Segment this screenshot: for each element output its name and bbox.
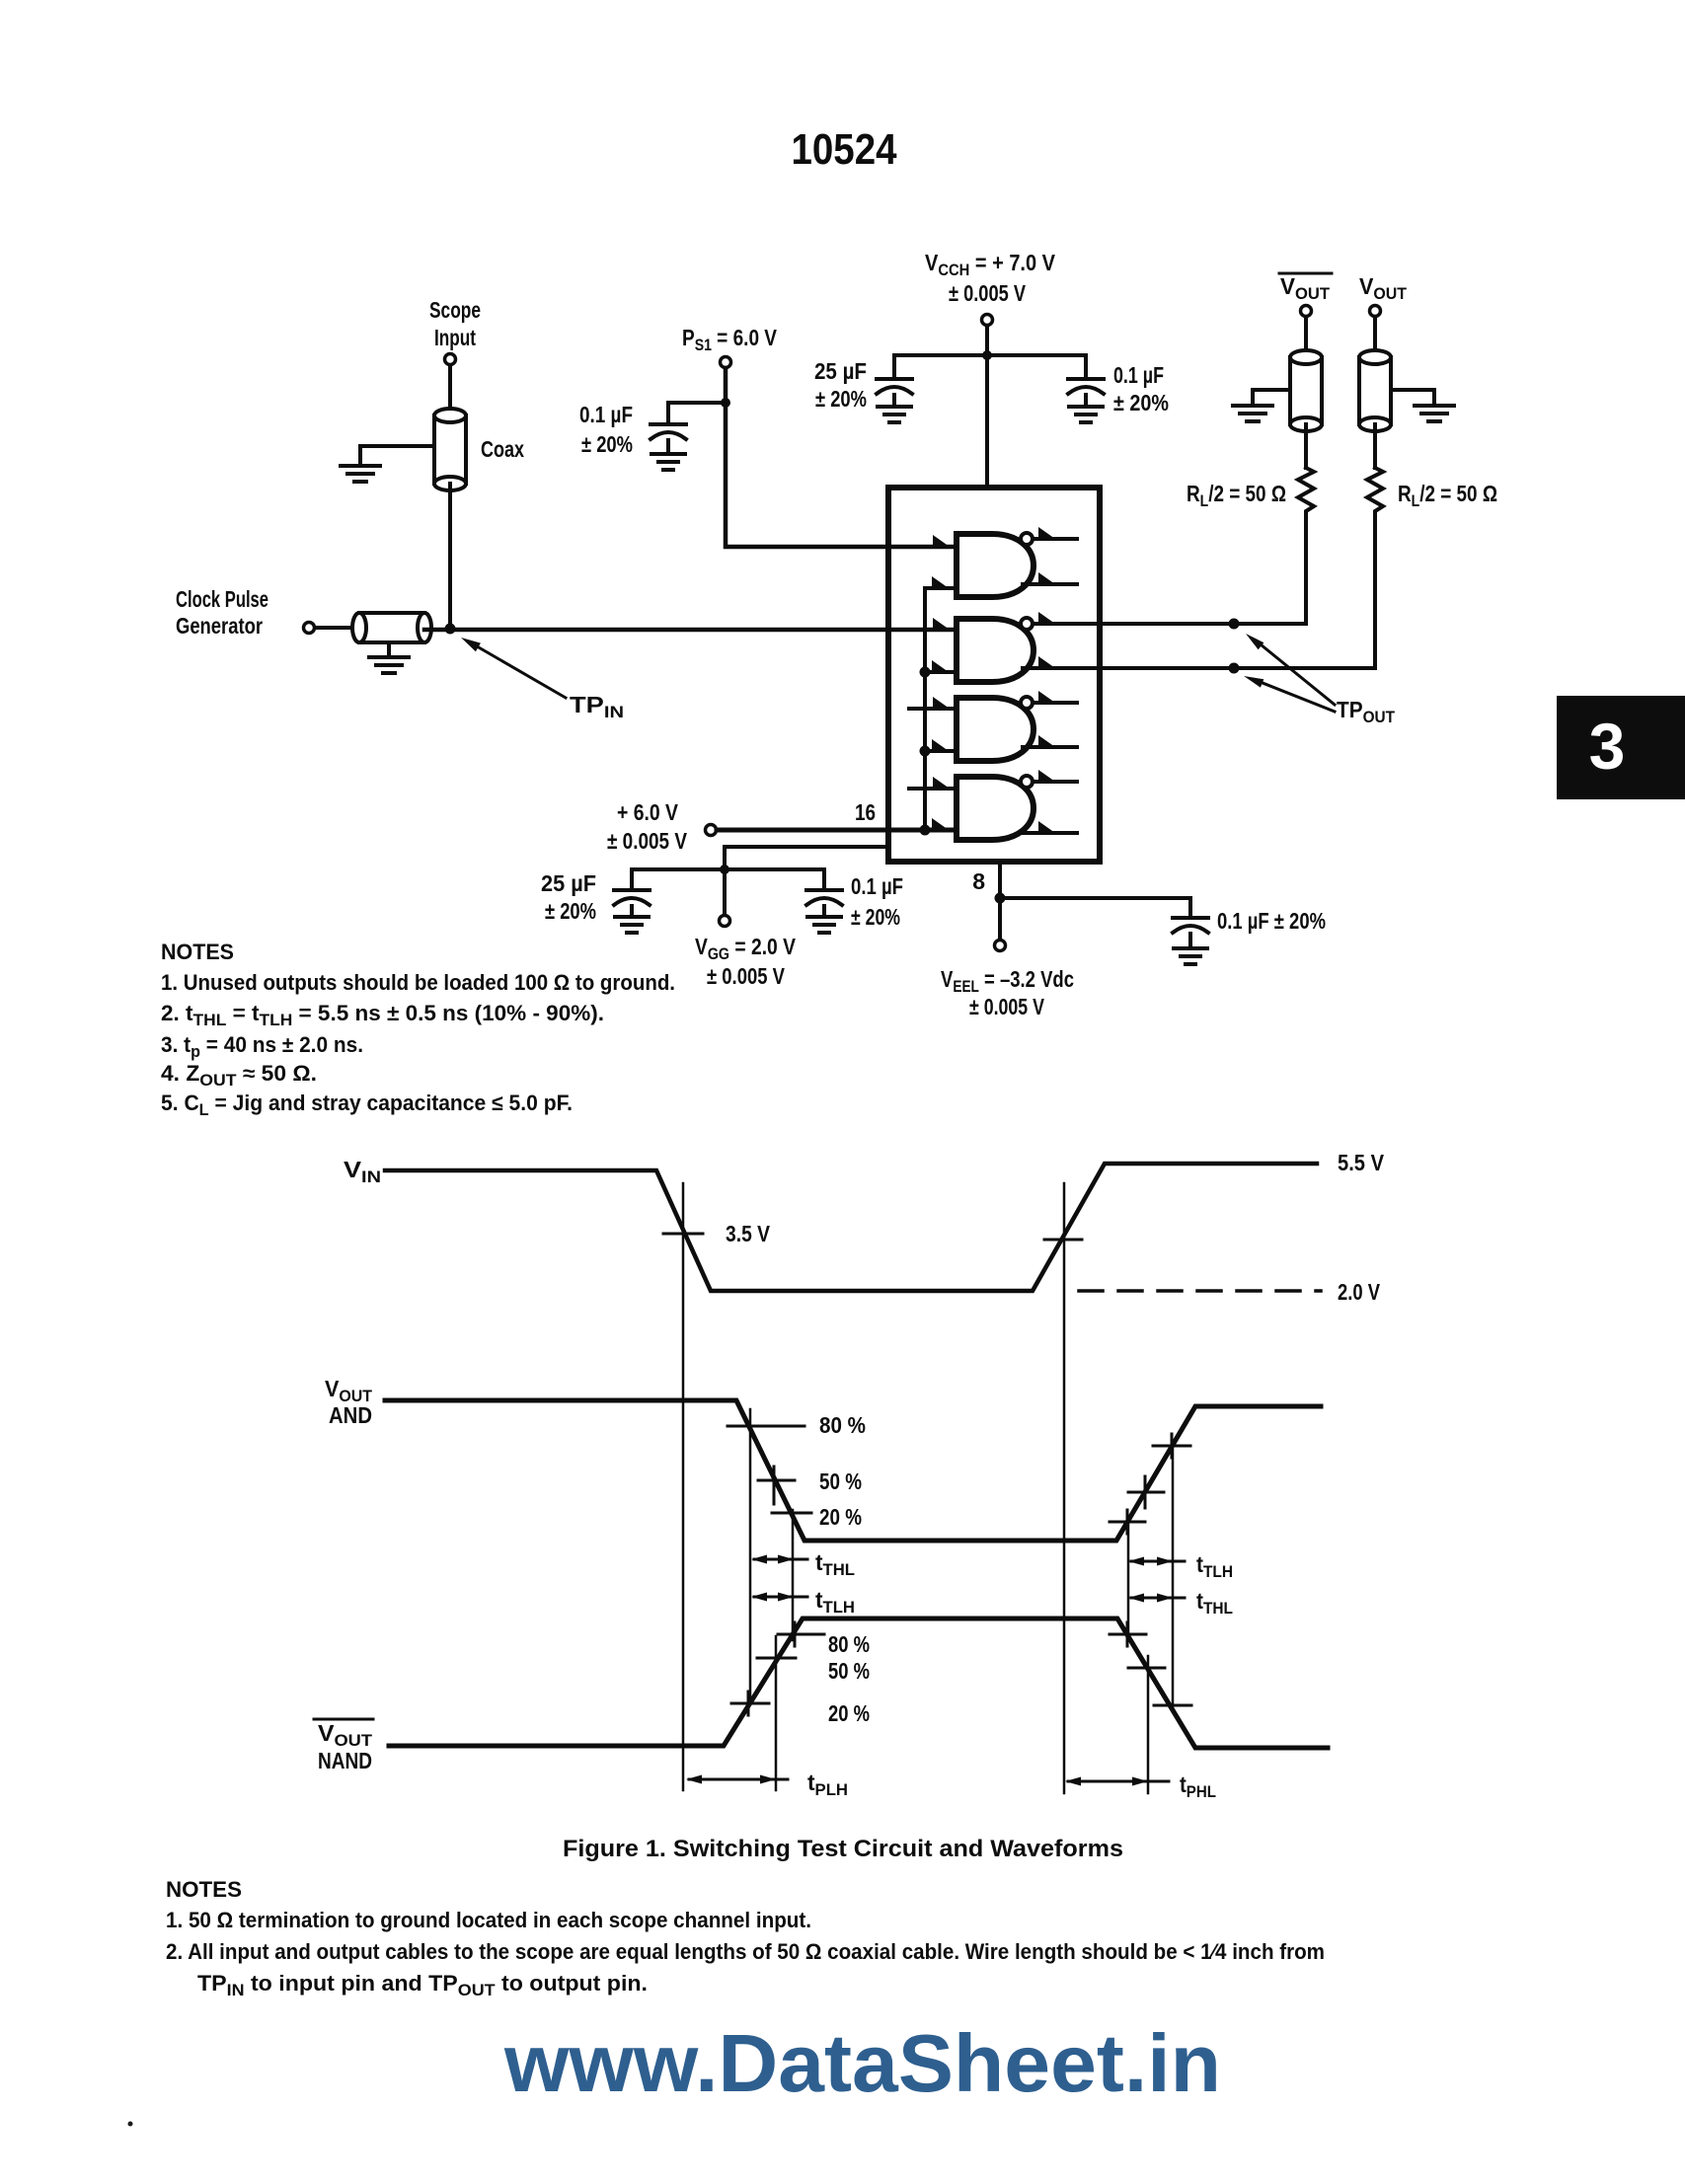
svg-text:0.1 µF: 0.1 µF xyxy=(1113,362,1164,388)
svg-text:3: 3 xyxy=(1589,710,1626,783)
svg-text:80 %: 80 % xyxy=(828,1631,870,1657)
wire tick NAND rise 20% xyxy=(731,1692,769,1715)
wire resistor right to coax xyxy=(1373,424,1377,468)
svg-text:TPIN: TPIN xyxy=(570,692,624,721)
node bus junction gate U1d input 2 xyxy=(920,825,931,836)
svg-text:4. ZOUT ≈ 50 Ω.: 4. ZOUT ≈ 50 Ω. xyxy=(161,1061,317,1090)
wire gate U1b AND output to VOUT network xyxy=(1023,517,1375,668)
node TPOUT junction (NAND) xyxy=(1229,619,1240,630)
svg-text:5.5 V: 5.5 V xyxy=(1338,1150,1385,1175)
node PS1 terminal xyxy=(682,325,778,368)
gate U1b (AND/NAND translator) xyxy=(932,612,1055,682)
svg-text:TPOUT: TPOUT xyxy=(1337,697,1396,726)
node VOUT-bar NAND waveform label xyxy=(318,1720,373,1773)
wire generator output to gate U1b input 1 xyxy=(424,628,957,633)
node VEEL terminal xyxy=(941,941,1074,1020)
svg-text:tTHL: tTHL xyxy=(1196,1588,1233,1618)
node VGG junction xyxy=(720,865,729,874)
node VCCH junction xyxy=(982,350,992,360)
coax body (clock generator) xyxy=(352,613,431,642)
svg-text:3. tp = 40 ns ± 2.0 ns.: 3. tp = 40 ns ± 2.0 ns. xyxy=(161,1032,363,1061)
svg-text:tTLH: tTLH xyxy=(1196,1551,1233,1581)
wire resistor left to coax xyxy=(1304,424,1308,468)
resistor RL/2 = 50 ohm (left) xyxy=(1187,468,1314,517)
wire gate U1c input 1 stub xyxy=(909,707,957,711)
svg-text:NOTES: NOTES xyxy=(161,940,234,964)
wire gate U1b input 2 stub xyxy=(925,670,957,674)
svg-text:± 20%: ± 20% xyxy=(815,386,867,412)
wire tick NAND fall 50% xyxy=(1128,1667,1165,1670)
label TPIN with arrow xyxy=(461,638,624,721)
coax Coax (scope input) xyxy=(434,409,524,490)
svg-text:± 0.005 V: ± 0.005 V xyxy=(607,828,688,854)
svg-text:± 20%: ± 20% xyxy=(851,904,900,930)
node VOUT AND waveform label xyxy=(325,1376,373,1428)
wire reference line at input rising edge xyxy=(1063,1183,1066,1793)
svg-text:2. tTHL = tTLH = 5.5 ns ± 0.5: 2. tTHL = tTLH = 5.5 ns ± 0.5 ns (10% - … xyxy=(161,1001,604,1029)
svg-text:Generator: Generator xyxy=(176,613,263,639)
svg-text:VIN: VIN xyxy=(344,1157,381,1186)
wire dashed 2.0 V level xyxy=(1079,1289,1321,1293)
wire tick NAND fall 80% xyxy=(1110,1622,1146,1646)
capacitor 0.1 uF 20% (PS1 bypass) xyxy=(579,402,686,470)
dimension tTLH (right) xyxy=(1128,1551,1233,1581)
wire reference line NAND 50% falling xyxy=(1147,1656,1150,1793)
capacitor 25 uF 20% (VGG bulk) xyxy=(541,869,650,933)
overline for VOUT-bar label xyxy=(314,1718,373,1721)
label 20% (NAND rise) xyxy=(828,1700,870,1726)
wire gate U1b NAND output to VOUT-bar network xyxy=(1033,517,1306,624)
svg-text:tPHL: tPHL xyxy=(1180,1771,1216,1801)
node VOUT terminal xyxy=(1359,273,1408,317)
title 10524 xyxy=(792,125,897,174)
wire tick AND rise 20% xyxy=(1110,1510,1145,1534)
label 80% (NAND rise) xyxy=(828,1631,870,1657)
wire reference line AND 80% falling xyxy=(749,1409,752,1703)
node VOUT-bar terminal xyxy=(1279,273,1332,317)
node VEE junction xyxy=(995,893,1006,904)
node TPOUT junction (AND) xyxy=(1229,663,1240,674)
svg-text:Coax: Coax xyxy=(481,436,524,462)
label 50% (NAND rise) xyxy=(828,1658,870,1684)
svg-text:www.DataSheet.in: www.DataSheet.in xyxy=(503,2017,1221,2109)
svg-text:VGG = 2.0 V: VGG = 2.0 V xyxy=(695,934,797,963)
wire reference line at input falling edge xyxy=(682,1183,685,1790)
svg-text:10524: 10524 xyxy=(792,125,897,174)
coax (VOUT-bar scope cable) xyxy=(1290,350,1322,431)
svg-text:NAND: NAND xyxy=(318,1748,372,1773)
page tab 3 xyxy=(1557,696,1685,799)
svg-text:5. CL = Jig and stray capacit: 5. CL = Jig and stray capacitance ≤ 5.0 … xyxy=(161,1091,573,1119)
wire tick NAND fall 20% xyxy=(1154,1704,1191,1707)
capacitor 25 uF 20% (VCCH bulk) xyxy=(814,355,912,422)
svg-text:50 %: 50 % xyxy=(828,1658,870,1684)
svg-text:± 0.005 V: ± 0.005 V xyxy=(949,280,1027,306)
wire tick AND rise 50% xyxy=(1128,1476,1164,1508)
wire VOUT terminal to coax xyxy=(1373,317,1377,357)
wire +6.0 V to pin 16 / gate U1d input 2 xyxy=(717,828,957,833)
svg-text:RL/2 = 50 Ω: RL/2 = 50 Ω xyxy=(1398,481,1497,510)
node PS1 junction xyxy=(721,398,730,408)
pin 8 wire to VEEL xyxy=(998,862,1002,940)
node Scope Input terminal xyxy=(429,297,481,365)
svg-text:2.0 V: 2.0 V xyxy=(1338,1279,1381,1305)
svg-text:TPIN to input pin and TPOUT to: TPIN to input pin and TPOUT to output pi… xyxy=(197,1971,648,1999)
label 20% (AND fall) xyxy=(819,1504,862,1530)
wire tick NAND rise 50% xyxy=(757,1657,796,1660)
capacitor 0.1 uF 20% (VCCH bypass) xyxy=(1068,355,1169,422)
wire input bus xyxy=(925,588,957,830)
ground (VOUT coax shield) xyxy=(1391,390,1454,421)
dimension tTHL (right) xyxy=(1128,1588,1233,1618)
ground (clock generator) xyxy=(369,642,409,673)
svg-text:80 %: 80 % xyxy=(819,1412,866,1438)
label 2.0 V xyxy=(1338,1279,1381,1305)
wire VOUT-bar terminal to coax xyxy=(1304,317,1308,357)
svg-text:tPLH: tPLH xyxy=(807,1770,848,1799)
node VCCH terminal xyxy=(925,250,1056,326)
wire gate U1d input 1 stub xyxy=(909,787,957,791)
svg-text:16: 16 xyxy=(855,799,876,825)
speck (scan artifact) xyxy=(128,2122,133,2127)
wire tick AND fall 50% xyxy=(758,1467,795,1504)
node bus junction gate U1c input 2 xyxy=(920,746,931,757)
svg-text:PS1 = 6.0 V: PS1 = 6.0 V xyxy=(682,325,778,354)
wire PS1 junction to bypass cap xyxy=(668,403,726,422)
svg-text:0.1 µF: 0.1 µF xyxy=(579,402,633,427)
wire VCCH to IC pin xyxy=(985,326,989,488)
label 3.5 V xyxy=(726,1221,771,1246)
dimension tTLH (left) xyxy=(751,1587,855,1617)
wire reference line AND 20% falling xyxy=(792,1510,795,1640)
svg-text:± 20%: ± 20% xyxy=(1113,390,1169,415)
wire scope input to coax xyxy=(448,365,452,415)
svg-text:50 %: 50 % xyxy=(819,1469,862,1494)
svg-text:Figure 1. Switching Test Circu: Figure 1. Switching Test Circuit and Wav… xyxy=(563,1836,1123,1862)
wire VIN waveform trace xyxy=(385,1164,1317,1291)
svg-text:25 µF: 25 µF xyxy=(814,358,867,384)
svg-text:0.1 µF ± 20%: 0.1 µF ± 20% xyxy=(1217,908,1326,934)
svg-text:2. All input and output cable: 2. All input and output cables to the sc… xyxy=(166,1939,1325,1964)
gate U1c (AND/NAND translator) xyxy=(932,691,1077,761)
wire reference line AND 20% rising xyxy=(1127,1520,1130,1636)
svg-text:AND: AND xyxy=(329,1402,372,1428)
label 5.5 V xyxy=(1338,1150,1385,1175)
wire 3.5V crossing tick (rising) xyxy=(1044,1239,1082,1242)
wire tick AND rise 80% xyxy=(1153,1434,1190,1458)
capacitor 0.1 uF 20% (VGG bypass) xyxy=(806,869,903,933)
gate U1d (AND/NAND translator) xyxy=(932,770,1077,840)
wire reference line NAND 50% rising xyxy=(775,1636,778,1790)
svg-text:20 %: 20 % xyxy=(819,1504,862,1530)
svg-text:Input: Input xyxy=(434,325,476,350)
wire PS1 to gate U1a input 1 xyxy=(726,368,957,547)
svg-text:1. 50 Ω termination to ground: 1. 50 Ω termination to ground located in… xyxy=(166,1908,811,1932)
svg-text:VOUT: VOUT xyxy=(1359,273,1408,303)
svg-text:± 20%: ± 20% xyxy=(581,431,633,457)
svg-text:± 0.005 V: ± 0.005 V xyxy=(707,963,786,989)
pin 16 label xyxy=(855,799,876,825)
wire coax to TPIN junction xyxy=(448,484,452,628)
svg-text:± 0.005 V: ± 0.005 V xyxy=(969,994,1045,1019)
label 80% (AND fall) xyxy=(819,1412,866,1438)
pin 8 label xyxy=(972,868,985,894)
node VGG terminal xyxy=(695,916,797,990)
node bus junction gate U1b input 2 xyxy=(920,667,931,678)
svg-text:VOUT: VOUT xyxy=(1280,273,1331,303)
IC U1 10524 outline xyxy=(888,488,1100,862)
gate U1a (AND/NAND translator) xyxy=(932,527,1077,597)
coax (VOUT scope cable) xyxy=(1359,350,1391,431)
dimension tTHL (left) xyxy=(751,1549,855,1579)
wire 3.5V crossing tick (falling) xyxy=(663,1233,703,1236)
resistor RL/2 = 50 ohm (right) xyxy=(1367,468,1497,517)
wire VOUT-bar NAND waveform trace xyxy=(389,1619,1328,1748)
dimension tPHL xyxy=(1065,1771,1216,1801)
generator Clock Pulse Generator xyxy=(176,586,355,639)
wire tick AND fall 80% xyxy=(728,1425,804,1428)
svg-text:NOTES: NOTES xyxy=(166,1877,242,1902)
dimension tPLH xyxy=(686,1770,848,1799)
wire VOUT AND waveform trace xyxy=(385,1400,1321,1541)
svg-text:Scope: Scope xyxy=(429,297,481,323)
svg-text:RL/2 = 50 Ω: RL/2 = 50 Ω xyxy=(1187,481,1286,510)
svg-text:+ 6.0 V: + 6.0 V xyxy=(617,799,679,825)
node VIN waveform label xyxy=(344,1157,381,1186)
svg-text:tTLH: tTLH xyxy=(815,1587,855,1617)
svg-text:VOUT: VOUT xyxy=(325,1376,373,1405)
svg-text:VCCH = + 7.0 V: VCCH = + 7.0 V xyxy=(925,250,1056,279)
svg-text:20 %: 20 % xyxy=(828,1700,870,1726)
svg-text:± 20%: ± 20% xyxy=(545,898,596,924)
label TPOUT with arrows xyxy=(1244,634,1396,726)
svg-text:tTHL: tTHL xyxy=(815,1549,855,1579)
node TPIN junction xyxy=(445,624,456,635)
svg-text:3.5 V: 3.5 V xyxy=(726,1221,771,1246)
wire reference line AND 80% rising xyxy=(1172,1443,1175,1707)
ground (VOUT-bar coax shield) xyxy=(1233,390,1290,421)
label 50% (AND fall) xyxy=(819,1469,862,1494)
svg-text:VEEL = –3.2 Vdc: VEEL = –3.2 Vdc xyxy=(941,966,1074,996)
svg-text:VOUT: VOUT xyxy=(318,1720,373,1750)
capacitor 0.1 uF 20% (VEE bypass) xyxy=(1173,908,1326,964)
wire VCCH bypass rail xyxy=(894,353,1086,357)
wire tick NAND rise 80% xyxy=(778,1622,824,1646)
svg-text:25 µF: 25 µF xyxy=(541,870,596,896)
svg-text:1. Unused outputs should be lo: 1. Unused outputs should be loaded 100 Ω… xyxy=(161,970,675,995)
wire gate U1c input 2 stub xyxy=(925,749,957,753)
node +6.0 V terminal xyxy=(607,799,717,854)
svg-text:8: 8 xyxy=(972,868,985,894)
ground (scope coax shield) xyxy=(341,446,434,482)
wire tick AND fall 20% xyxy=(772,1512,811,1515)
svg-text:Clock Pulse: Clock Pulse xyxy=(176,586,268,612)
wire VEE junction to bypass cap xyxy=(1000,898,1190,916)
wire VGG to IC xyxy=(725,847,888,915)
wire VGG bypass rail xyxy=(632,867,824,871)
svg-text:0.1 µF: 0.1 µF xyxy=(851,873,903,899)
